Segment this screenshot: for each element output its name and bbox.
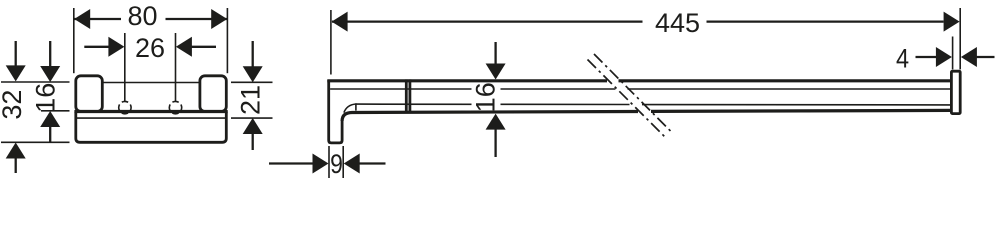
dimension 26 arrow left [108,37,124,57]
dimension 26 arrow right [176,37,192,57]
dimension 21 bottom stub [252,134,254,150]
svg-text:26: 26 [135,33,165,63]
dimension 16 top arrow [486,64,506,80]
bar top edge [327,79,951,82]
hidden hole right (dashed circle) [169,101,181,113]
svg-text:21: 21 [236,85,266,115]
bend joint tick [355,103,357,110]
svg-text:445: 445 [655,8,700,38]
dimension 16 top arrow [40,66,60,82]
dimension 26 right tail [192,46,217,48]
dimension 9 extension line left [328,146,330,178]
svg-text:16: 16 [30,83,60,113]
dimension 26 extension line right [175,33,177,101]
left post (front view, left mounting post) [76,76,103,112]
mid thick line (posts bottom / plate top) [74,110,227,113]
dimension 445 extension line left [330,10,332,75]
svg-text:9: 9 [330,149,343,179]
dimension 21 top arrow [243,66,263,82]
break mark line 2 [594,54,673,134]
dimension 32 top stub [15,41,17,66]
dimension 9 right tail [359,162,385,164]
dimension 80 arrow left [74,9,90,29]
svg-text:80: 80 [127,1,157,31]
dimension 445 line [332,20,944,22]
bend inner curve [344,104,356,113]
dimension 21 bottom arrow [243,118,263,134]
dimension 32 top arrow [6,65,26,81]
dimension 16 bottom extension line [41,110,70,112]
dimension 16 bottom arrow [486,114,506,130]
dimension 80 arrow right [211,9,227,29]
dimension 80 extension line right [226,8,228,73]
bar bottom edge with bend curve [342,110,951,121]
dimension 445 arrow left [332,12,348,32]
end cap (right end of bar) [951,71,960,113]
right post (front view, right mounting post) [200,76,226,112]
dimension 26 left tail [84,46,109,48]
dimension 4 arrow left [936,47,952,67]
dimension 4 extension line left [952,37,954,70]
svg-text:32: 32 [0,90,27,120]
bar lower inner line [356,103,951,106]
dimension 4 left tail [916,56,937,58]
svg-text:16: 16 [471,82,501,112]
dimension 21 top extension line [231,81,273,83]
dimension 9 extension line right [342,146,344,178]
dimension 21 top stub [252,41,254,67]
svg-text:4: 4 [896,44,909,74]
dimension 9 left tail [269,162,313,164]
dimension 32 bottom extension line [1,141,70,143]
dimension 445 extension line right [959,8,961,69]
dimension 16 bottom stub [494,129,496,157]
break mark line 1 [588,60,668,140]
bracket-bar joint line 1 [405,79,408,113]
bar top edge (between posts) [103,82,200,84]
dimension 16 bottom arrow [40,111,60,127]
dimension 26 extension line left [124,33,126,101]
hidden hole left (dashed circle) [119,101,131,113]
bar upper inner line [330,88,951,90]
dimension 32 bottom stub [15,158,17,173]
dimension 32 bottom arrow [6,143,26,159]
dimension 4 right tail [977,56,995,58]
top extension line (bar top, for 32/16) [1,81,70,83]
dimension 16 bottom stub [49,127,51,142]
bracket-bar joint line 2 [408,79,411,113]
dimension 4 arrow right [961,47,977,67]
dimension 16 (bar height) top stub [494,42,496,64]
dimension 445 arrow right [944,12,960,32]
plate inner edge line [77,117,226,119]
dimension 9 arrow right [344,154,360,174]
dimension 16 (left view) top stub [49,41,51,66]
dimension 80 extension line left [73,8,75,73]
dimension 80 line [74,18,227,20]
lower plate outline [76,112,227,143]
wall plate (side view, left bracket) [329,80,342,143]
dimension 21 bottom extension line [231,117,273,119]
dimension 9 arrow left [313,154,329,174]
